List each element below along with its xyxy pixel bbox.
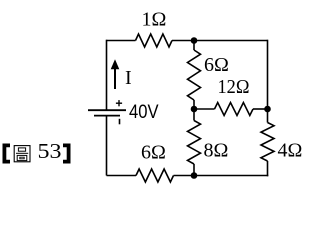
resistor 12Ω zigzag middle <box>215 103 254 116</box>
svg-text:40V: 40V <box>129 102 159 123</box>
svg-text:I: I <box>125 67 132 89</box>
node A dot (top, 1Ω/6Ω junction) <box>191 37 198 44</box>
node D dot (bottom, 6Ω/8Ω junction) <box>191 172 198 179</box>
wire bottom right horizontal <box>174 175 269 177</box>
resistor R1 1Ω zigzag top <box>136 34 173 47</box>
svg-text:1Ω: 1Ω <box>142 9 167 31</box>
wire bottom left horizontal <box>107 175 137 177</box>
caption glyph 圖 <box>14 146 30 162</box>
current arrow head <box>111 59 120 69</box>
wire middle right stub <box>253 108 268 110</box>
wire right vertical upper <box>267 40 269 123</box>
battery V1 bottom plate (short, -) <box>94 115 120 117</box>
current arrow stem <box>114 69 116 90</box>
caption bracket 【 <box>3 144 11 164</box>
wire top right horizontal <box>172 40 268 42</box>
battery minus tick <box>119 119 121 125</box>
wire 8Ω top lead <box>193 109 195 121</box>
resistor 6Ω zigzag bottom <box>136 169 174 182</box>
caption bracket 】 <box>63 144 71 164</box>
node B dot (middle left, 6Ω/12Ω/8Ω junction) <box>191 106 198 113</box>
wire right vertical lower lead <box>267 161 269 176</box>
svg-text:12Ω: 12Ω <box>218 76 250 98</box>
svg-text:53: 53 <box>38 139 62 163</box>
resistor 6Ω zigzag vertical <box>188 50 201 100</box>
resistor 4Ω zigzag vertical <box>261 123 274 162</box>
svg-text:6Ω: 6Ω <box>141 142 166 164</box>
wire left vertical upper <box>106 40 108 110</box>
battery V1 top plate (long, +) <box>88 109 126 111</box>
wire 6Ω top lead <box>193 41 195 51</box>
wire top left horizontal <box>107 40 136 42</box>
wire 6Ω bottom lead <box>193 100 195 109</box>
svg-text:8Ω: 8Ω <box>204 140 229 162</box>
wire left vertical lower <box>106 116 108 176</box>
resistor 8Ω zigzag vertical <box>188 121 201 165</box>
svg-text:6Ω: 6Ω <box>204 54 229 76</box>
wire 8Ω bottom lead <box>193 164 195 176</box>
wire middle left stub <box>194 108 215 110</box>
battery plus sign <box>116 100 122 106</box>
svg-text:4Ω: 4Ω <box>278 140 303 162</box>
node C dot (middle right, 12Ω/4Ω junction) <box>264 106 271 113</box>
